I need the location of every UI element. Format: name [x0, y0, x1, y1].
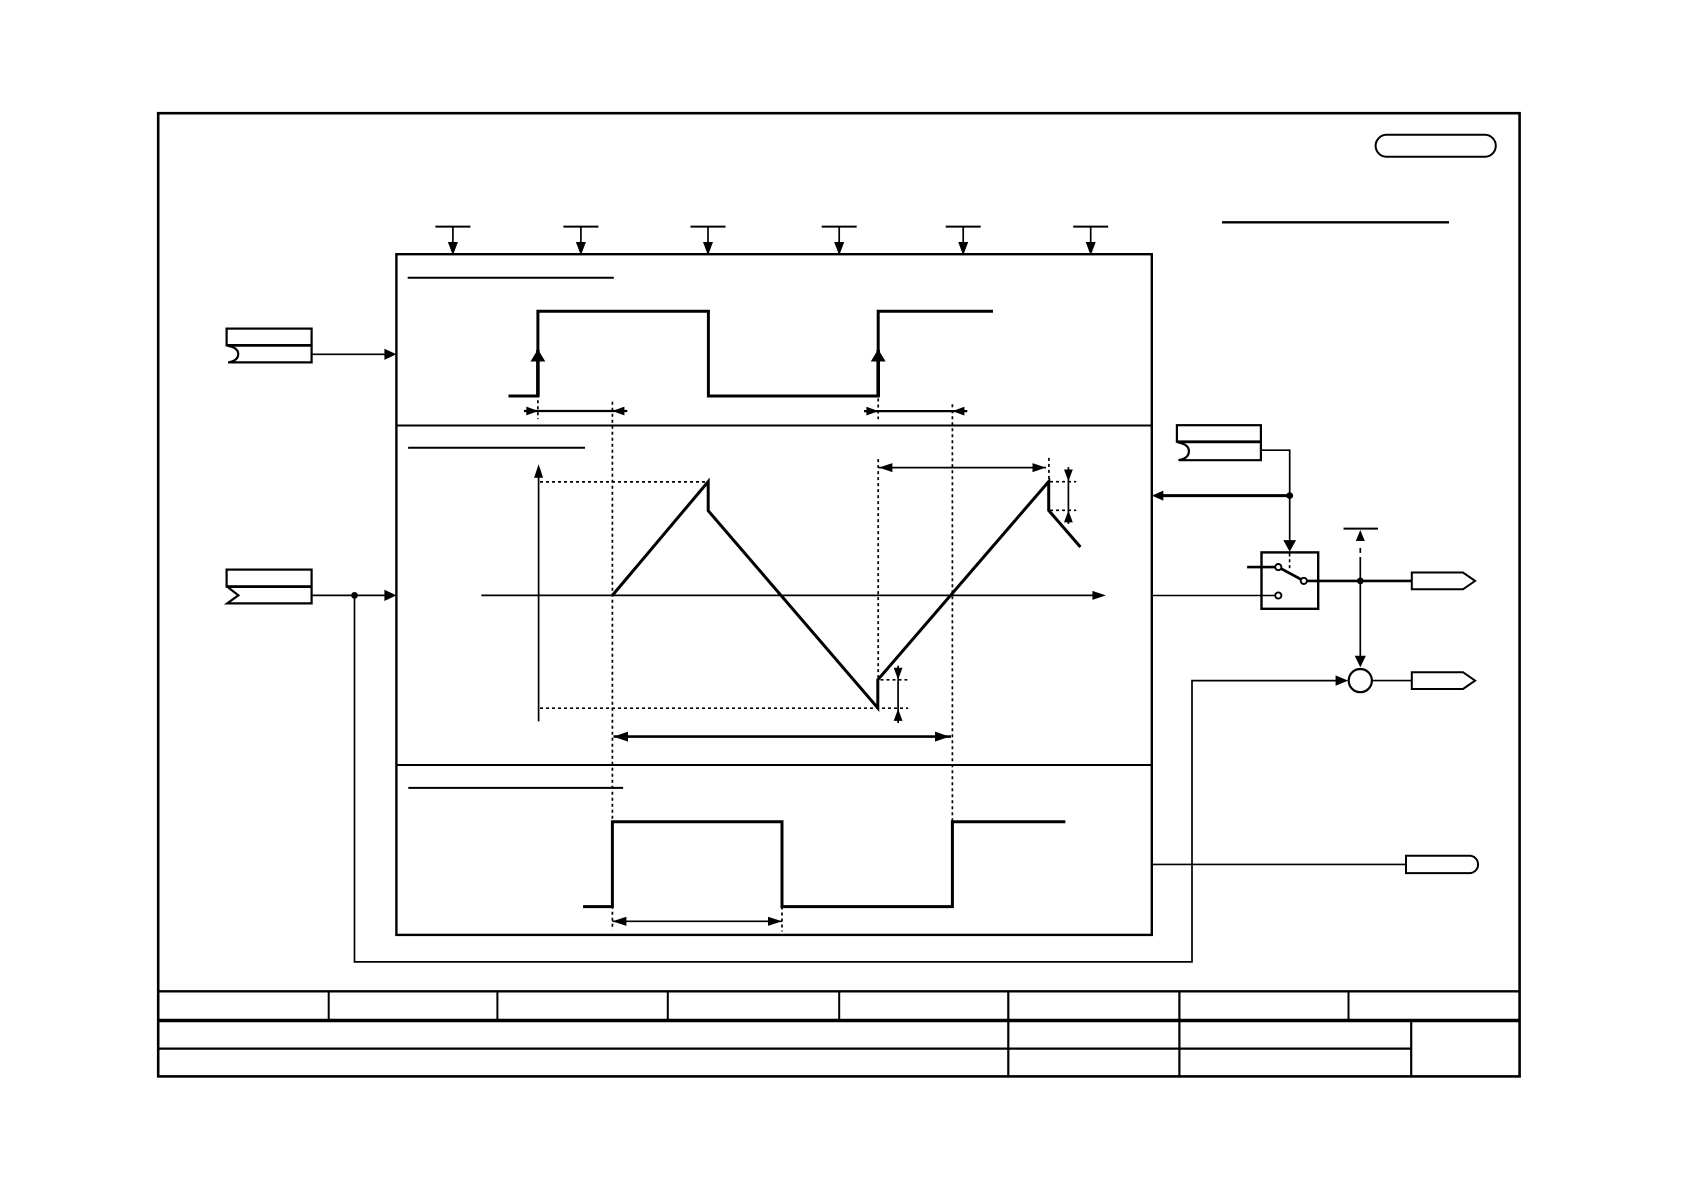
wire: feedback path down-right-up to adder: [355, 595, 1338, 962]
dimension: hysteresis at peak2: [1064, 467, 1073, 524]
clock tap T1: [435, 227, 470, 254]
switch contact common: [1301, 578, 1307, 584]
title block top border: [158, 990, 1519, 992]
dimension: pulse width: [612, 917, 782, 926]
rising edge arrow 2: [876, 350, 880, 397]
section 2 title underline: [408, 447, 585, 449]
triangle horizontal axis: [481, 591, 1106, 600]
guide dotted x=878 upper: [877, 399, 879, 420]
dimension: full period bottom: [614, 732, 952, 742]
dimension: hysteresis at trough: [894, 666, 903, 723]
adder circle: [1349, 669, 1372, 692]
title pill (top right): [1376, 135, 1496, 157]
switch arm: [1281, 569, 1301, 580]
section 1+2+3 guide dotted x=612.4: [611, 402, 613, 930]
switch input stub (upper): [1247, 566, 1275, 569]
dimension: clock period right: [864, 407, 967, 416]
wire: frame to output flag 3: [1152, 863, 1406, 865]
clock tap T6: [1073, 227, 1108, 254]
switch contact lower: [1275, 592, 1281, 598]
arrowhead into adder from left: [1336, 675, 1349, 685]
section 1 guide dotted x=537.9: [537, 400, 539, 419]
node: junction on label C drop: [1286, 492, 1293, 499]
triangle vertical axis: [534, 464, 543, 721]
input label symbol A (curved flag, left top): [227, 329, 312, 363]
wire: switch output: [1307, 580, 1411, 583]
clock tap T4: [822, 227, 857, 254]
dotted level line top: [540, 481, 707, 483]
section 3 title underline: [408, 787, 623, 789]
wire: adder output: [1372, 680, 1412, 682]
section 1 title underline: [408, 277, 614, 279]
dotted level line bottom: [540, 707, 908, 709]
output flag 2 (pointed): [1412, 672, 1475, 689]
section divider 2: [396, 764, 1151, 766]
title block column dividers row1: [329, 991, 1349, 1020]
guide dotted x=782: [781, 823, 783, 932]
dotted level at peak2 top: [1050, 481, 1076, 483]
node: junction on switch output: [1357, 578, 1364, 585]
node: junction below label B: [351, 592, 358, 599]
dimension: half period top: [879, 463, 1046, 472]
clock waveform: [509, 311, 994, 396]
guide dotted x=1048.9: [1048, 458, 1050, 480]
input label symbol B (zigzag flag, left middle): [227, 570, 312, 604]
wire: axis output to switch lower contact: [1152, 595, 1275, 597]
wire: parameter drop to adder: [1359, 557, 1361, 656]
wire: label B to frame: [312, 590, 397, 601]
header underline (top right): [1222, 221, 1449, 223]
title block row2 bottom: [158, 1047, 1411, 1049]
applied parameter bar T: [1344, 528, 1379, 530]
guide dotted x=952.4: [951, 404, 953, 821]
section divider 1: [396, 425, 1151, 427]
title block column dividers full height: [1008, 991, 1411, 1076]
clock tap T2: [563, 227, 598, 254]
main function frame box: [396, 254, 1151, 935]
clock tap T5: [946, 227, 981, 254]
arrow up to parameter bar: [1356, 530, 1365, 541]
wire: label C to switch: [1261, 450, 1290, 540]
switch box S1: [1262, 552, 1319, 608]
output flag 3 (rounded): [1406, 856, 1478, 873]
clock tap T3: [691, 227, 726, 254]
output flag 1 (pointed): [1412, 573, 1475, 590]
dotted level at peak2 bottom: [1050, 509, 1076, 511]
switch control dashed line: [1289, 554, 1291, 571]
output square waveform: [583, 822, 1065, 907]
dotted level at trough jump: [881, 679, 908, 681]
sheet border frame: [158, 113, 1519, 1076]
parameter label symbol C (curved flag, right): [1177, 425, 1261, 460]
title block row1 bottom (thick): [158, 1019, 1519, 1022]
wire: thick arrow into frame right edge: [1160, 494, 1290, 497]
rising edge arrow 1: [536, 350, 540, 397]
wire: label A to frame: [312, 349, 397, 360]
switch contact upper: [1275, 564, 1281, 570]
guide dotted x=878 lower: [877, 459, 879, 680]
triangle waveform: [612, 482, 1080, 709]
dimension: clock period left: [524, 407, 627, 416]
